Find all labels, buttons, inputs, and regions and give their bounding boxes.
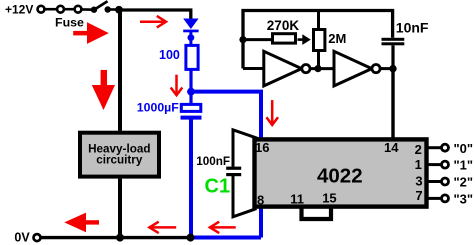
node osc input junction xyxy=(239,36,246,43)
output pin 3 wire xyxy=(429,180,442,183)
node 0V terminal xyxy=(34,234,41,241)
wire main vertical down xyxy=(118,10,122,131)
svg-text:"2": "2" xyxy=(454,175,474,190)
fuse F1 xyxy=(57,6,81,13)
output terminal 2 xyxy=(442,178,449,185)
svg-text:100nF: 100nF xyxy=(196,155,230,168)
wire resistor to node B xyxy=(189,69,192,92)
svg-text:100: 100 xyxy=(159,48,180,62)
svg-text:1000µF: 1000µF xyxy=(137,101,179,115)
current arrow big left xyxy=(64,213,99,233)
output pin 2 wire xyxy=(429,146,442,149)
node U1B out junction xyxy=(389,65,396,72)
svg-text:14: 14 xyxy=(384,140,399,155)
wire heavy-load to 0V xyxy=(118,179,122,238)
svg-text:Fuse: Fuse xyxy=(55,15,84,29)
wire input to inverter U1A xyxy=(243,67,265,70)
output pin 7 wire xyxy=(429,197,442,200)
svg-text:8: 8 xyxy=(257,192,264,207)
resistor R1 100 xyxy=(186,45,198,69)
switch S1 xyxy=(81,1,119,13)
current arrow big right xyxy=(73,22,109,44)
svg-text:2: 2 xyxy=(415,142,422,157)
resistor R2 270K xyxy=(273,34,296,43)
IC U2 4022 xyxy=(255,139,427,206)
output terminal 3 xyxy=(442,195,449,202)
svg-text:15: 15 xyxy=(322,191,336,206)
inverter U1A xyxy=(264,51,310,86)
wire U1B out xyxy=(380,67,393,70)
svg-text:270K: 270K xyxy=(267,18,300,33)
svg-text:3: 3 xyxy=(415,174,422,189)
current arrow big down xyxy=(92,70,115,110)
output terminal 1 xyxy=(442,161,449,168)
node U1A out junction xyxy=(314,65,321,72)
wire node B to pin 16 xyxy=(191,92,261,238)
node heavy-load 0V junction xyxy=(116,234,124,242)
capacitor C3 10nF xyxy=(382,38,405,69)
svg-text:11: 11 xyxy=(290,192,304,207)
wire top rail to diode xyxy=(119,10,191,19)
svg-text:1: 1 xyxy=(415,157,422,172)
current arrow small left 1 xyxy=(149,222,176,233)
current arrow small down left xyxy=(171,75,183,96)
junction node +12V rail xyxy=(115,6,123,14)
svg-text:"1": "1" xyxy=(454,158,474,173)
svg-text:10nF: 10nF xyxy=(396,20,429,36)
wire pins 11-15 strap xyxy=(302,206,332,219)
svg-text:"0": "0" xyxy=(454,141,474,156)
wire U1B out to pin 14 xyxy=(391,69,394,139)
output pin 1 wire xyxy=(429,163,442,166)
wire oscillator feedback loop xyxy=(243,11,393,69)
potentiometer R3 2M xyxy=(314,11,325,69)
node +12V terminal xyxy=(38,6,45,13)
node 0V-blue junction xyxy=(187,234,195,242)
current arrow small left 2 xyxy=(210,222,236,233)
svg-text:0V: 0V xyxy=(14,231,30,245)
wire node to 270K xyxy=(243,38,272,41)
wiper arrow to 2M xyxy=(298,34,311,45)
wire terminal to fuse xyxy=(45,8,57,11)
heavy-load box xyxy=(80,133,159,177)
node B junction xyxy=(187,88,195,96)
wire cap to 0V rail xyxy=(189,120,193,238)
output terminal 0 xyxy=(442,144,449,151)
svg-text:circuitry: circuitry xyxy=(96,154,143,167)
wire U1A out to U1B in xyxy=(310,67,335,70)
current arrow small down pin16 xyxy=(266,100,278,125)
svg-text:+12V: +12V xyxy=(5,3,33,17)
svg-text:7: 7 xyxy=(415,188,422,203)
label Heavy-load circuitry xyxy=(88,143,150,167)
capacitor C1 100nF bracket xyxy=(226,130,258,217)
svg-text:16: 16 xyxy=(255,140,269,155)
inverter U1B xyxy=(334,51,380,86)
capacitor C2 1000uF xyxy=(181,92,202,120)
svg-text:4022: 4022 xyxy=(317,165,363,188)
svg-text:"3": "3" xyxy=(454,191,474,206)
svg-text:2M: 2M xyxy=(328,31,346,46)
svg-text:C1: C1 xyxy=(205,176,231,198)
0V rail wire xyxy=(41,236,191,239)
diode D1 xyxy=(183,19,198,46)
wire blue bottom run xyxy=(191,236,261,240)
current arrow small right top xyxy=(140,16,166,28)
